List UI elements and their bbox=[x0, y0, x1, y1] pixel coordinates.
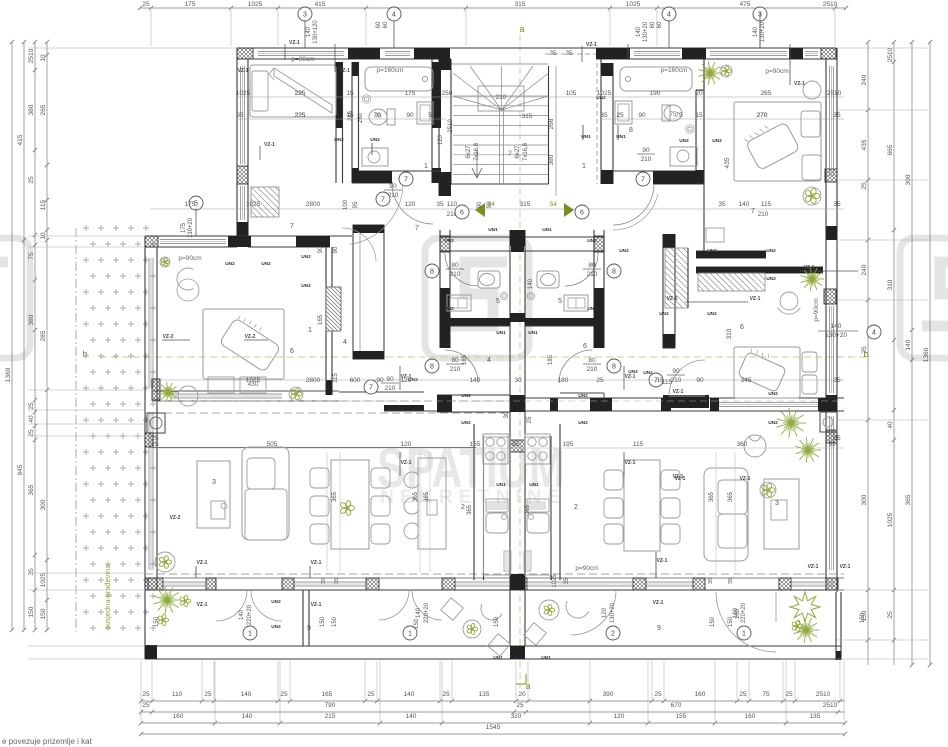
svg-text:1: 1 bbox=[248, 630, 252, 637]
svg-text:240: 240 bbox=[861, 74, 868, 85]
svg-text:7x16,8: 7x16,8 bbox=[523, 142, 529, 161]
svg-text:10: 10 bbox=[40, 54, 47, 62]
svg-text:VZ-2: VZ-2 bbox=[163, 334, 174, 340]
svg-text:6: 6 bbox=[290, 348, 294, 355]
furniture bbox=[250, 65, 336, 117]
svg-text:210: 210 bbox=[496, 94, 507, 101]
svg-text:90: 90 bbox=[406, 112, 414, 119]
svg-text:a: a bbox=[519, 24, 524, 34]
svg-text:1025: 1025 bbox=[246, 377, 261, 384]
svg-text:210: 210 bbox=[587, 271, 598, 278]
svg-text:1360: 1360 bbox=[923, 347, 930, 362]
svg-text:790: 790 bbox=[325, 702, 336, 709]
svg-text:NEKRETNINE: NEKRETNINE bbox=[380, 487, 566, 508]
svg-text:95: 95 bbox=[353, 201, 359, 208]
svg-text:260: 260 bbox=[358, 112, 364, 123]
svg-text:365: 365 bbox=[28, 484, 35, 495]
svg-text:435: 435 bbox=[724, 157, 731, 168]
svg-text:120: 120 bbox=[602, 607, 608, 618]
svg-text:175: 175 bbox=[185, 201, 196, 208]
svg-text:1360: 1360 bbox=[5, 367, 12, 382]
svg-text:315: 315 bbox=[520, 201, 531, 208]
svg-text:VZ-1: VZ-1 bbox=[808, 564, 819, 570]
svg-text:UN1: UN1 bbox=[496, 482, 506, 488]
svg-text:25: 25 bbox=[151, 441, 159, 448]
svg-text:240: 240 bbox=[861, 264, 868, 275]
svg-text:15: 15 bbox=[695, 112, 703, 119]
svg-text:UN2: UN2 bbox=[370, 137, 380, 143]
svg-text:1025: 1025 bbox=[887, 512, 894, 527]
svg-text:UN2: UN2 bbox=[707, 248, 717, 254]
svg-text:130+20: 130+20 bbox=[760, 21, 766, 42]
svg-text:25: 25 bbox=[151, 435, 159, 442]
svg-text:100: 100 bbox=[343, 199, 349, 210]
svg-text:3: 3 bbox=[303, 11, 307, 18]
svg-text:35: 35 bbox=[564, 577, 570, 584]
staircase bbox=[438, 59, 440, 196]
svg-text:VZ-2: VZ-2 bbox=[245, 334, 256, 340]
svg-text:140: 140 bbox=[831, 323, 842, 330]
svg-text:35: 35 bbox=[436, 201, 444, 208]
svg-text:90: 90 bbox=[386, 376, 394, 383]
svg-text:140: 140 bbox=[416, 607, 422, 618]
svg-text:25: 25 bbox=[142, 691, 150, 698]
svg-text:140: 140 bbox=[239, 609, 245, 620]
svg-text:365: 365 bbox=[413, 491, 419, 502]
svg-text:2510: 2510 bbox=[823, 702, 838, 709]
svg-text:175: 175 bbox=[185, 1, 196, 8]
svg-text:1: 1 bbox=[582, 163, 586, 170]
svg-text:150: 150 bbox=[40, 608, 47, 619]
svg-text:6: 6 bbox=[460, 209, 464, 216]
svg-text:UN2: UN2 bbox=[578, 420, 588, 426]
svg-text:505: 505 bbox=[267, 441, 278, 448]
svg-text:150: 150 bbox=[710, 616, 716, 627]
svg-text:120: 120 bbox=[401, 441, 412, 448]
svg-text:670: 670 bbox=[671, 702, 682, 709]
svg-text:195: 195 bbox=[563, 441, 574, 448]
svg-text:VZ-1: VZ-1 bbox=[667, 296, 678, 302]
svg-text:9: 9 bbox=[657, 625, 661, 632]
svg-text:210: 210 bbox=[641, 156, 652, 163]
svg-text:VZ-1: VZ-1 bbox=[197, 602, 208, 608]
svg-text:5: 5 bbox=[428, 112, 432, 119]
svg-text:15: 15 bbox=[346, 90, 354, 97]
svg-text:1025: 1025 bbox=[248, 1, 263, 8]
svg-text:175: 175 bbox=[405, 90, 416, 97]
unit2 interior bbox=[696, 89, 704, 91]
svg-text:25: 25 bbox=[204, 691, 212, 698]
svg-text:VZ-1: VZ-1 bbox=[238, 68, 249, 74]
svg-text:60: 60 bbox=[657, 21, 663, 28]
svg-text:VZ-1: VZ-1 bbox=[401, 460, 412, 466]
svg-text:160: 160 bbox=[735, 608, 741, 619]
svg-text:165: 165 bbox=[318, 314, 324, 325]
bathroom unit2 bbox=[600, 59, 602, 184]
svg-text:p=90cm: p=90cm bbox=[813, 298, 820, 321]
svg-text:20: 20 bbox=[695, 90, 703, 97]
svg-text:7: 7 bbox=[415, 225, 419, 232]
svg-text:185: 185 bbox=[548, 354, 554, 365]
svg-text:115: 115 bbox=[40, 199, 47, 210]
svg-text:6: 6 bbox=[583, 343, 587, 350]
svg-text:120: 120 bbox=[401, 377, 412, 384]
svg-text:130+20: 130+20 bbox=[825, 332, 847, 339]
svg-text:25: 25 bbox=[28, 429, 35, 437]
svg-text:UN2: UN2 bbox=[768, 420, 778, 426]
svg-text:40: 40 bbox=[887, 421, 894, 429]
svg-text:UN2: UN2 bbox=[444, 238, 454, 244]
svg-text:390: 390 bbox=[603, 691, 614, 698]
svg-text:VZ-1: VZ-1 bbox=[673, 474, 684, 480]
svg-text:160: 160 bbox=[745, 713, 756, 720]
svg-text:UN2: UN2 bbox=[444, 306, 454, 312]
svg-text:VZ-1: VZ-1 bbox=[311, 560, 322, 566]
svg-text:UN1: UN1 bbox=[542, 227, 552, 233]
svg-text:35: 35 bbox=[236, 112, 244, 119]
svg-text:80: 80 bbox=[588, 357, 596, 364]
svg-text:285: 285 bbox=[40, 330, 47, 341]
svg-text:8: 8 bbox=[612, 363, 616, 370]
svg-text:25: 25 bbox=[861, 182, 868, 190]
svg-text:90: 90 bbox=[696, 377, 704, 384]
svg-text:250: 250 bbox=[442, 90, 453, 97]
svg-text:35: 35 bbox=[833, 435, 841, 442]
svg-text:35: 35 bbox=[833, 112, 841, 119]
svg-text:310: 310 bbox=[887, 279, 894, 290]
svg-text:160: 160 bbox=[695, 691, 706, 698]
svg-text:UN1: UN1 bbox=[529, 482, 539, 488]
svg-text:320: 320 bbox=[511, 713, 522, 720]
svg-text:6: 6 bbox=[740, 324, 744, 331]
svg-text:2800: 2800 bbox=[306, 201, 321, 208]
svg-text:1545: 1545 bbox=[486, 724, 501, 731]
svg-text:150: 150 bbox=[154, 616, 160, 627]
svg-text:25: 25 bbox=[442, 691, 450, 698]
svg-text:268: 268 bbox=[548, 118, 555, 129]
svg-text:25: 25 bbox=[142, 1, 150, 8]
svg-text:90: 90 bbox=[389, 183, 397, 190]
svg-text:p=90cm: p=90cm bbox=[291, 56, 314, 63]
svg-text:25: 25 bbox=[596, 377, 604, 384]
svg-text:130+120: 130+120 bbox=[313, 20, 319, 44]
svg-text:365: 365 bbox=[424, 491, 430, 502]
svg-text:UN2: UN2 bbox=[768, 391, 778, 397]
svg-text:365: 365 bbox=[709, 491, 715, 502]
svg-text:VZ-1: VZ-1 bbox=[840, 564, 851, 570]
svg-text:380: 380 bbox=[548, 154, 555, 165]
svg-text:150: 150 bbox=[728, 616, 734, 627]
svg-text:140: 140 bbox=[306, 26, 312, 37]
svg-text:115: 115 bbox=[662, 379, 673, 386]
svg-text:360: 360 bbox=[737, 441, 748, 448]
svg-text:2: 2 bbox=[574, 504, 578, 511]
svg-text:1: 1 bbox=[742, 630, 746, 637]
svg-text:UN1: UN1 bbox=[493, 655, 503, 661]
svg-text:2: 2 bbox=[461, 504, 465, 511]
svg-text:UN1: UN1 bbox=[528, 330, 538, 336]
svg-text:VZ-1: VZ-1 bbox=[657, 558, 668, 564]
svg-text:90: 90 bbox=[672, 368, 680, 375]
svg-text:25: 25 bbox=[887, 611, 894, 619]
svg-text:945: 945 bbox=[17, 464, 24, 475]
svg-text:6x27: 6x27 bbox=[515, 145, 521, 159]
svg-text:3: 3 bbox=[775, 500, 779, 507]
svg-text:5: 5 bbox=[496, 298, 500, 305]
svg-text:365: 365 bbox=[525, 504, 531, 515]
svg-text:7: 7 bbox=[369, 384, 373, 391]
svg-text:115: 115 bbox=[761, 201, 772, 208]
svg-text:p=90cm: p=90cm bbox=[575, 565, 598, 572]
svg-text:220+20: 220+20 bbox=[247, 604, 253, 625]
section lines a-b bbox=[519, 34, 521, 688]
svg-text:35: 35 bbox=[321, 578, 327, 584]
svg-text:40: 40 bbox=[28, 415, 35, 423]
svg-text:35: 35 bbox=[600, 112, 608, 119]
svg-text:VZ-1: VZ-1 bbox=[673, 389, 684, 395]
svg-text:S4: S4 bbox=[549, 202, 557, 208]
svg-text:215: 215 bbox=[325, 713, 336, 720]
svg-text:25: 25 bbox=[516, 702, 524, 709]
svg-text:135: 135 bbox=[810, 713, 821, 720]
svg-text:UN2: UN2 bbox=[587, 306, 597, 312]
svg-text:VZ-1: VZ-1 bbox=[289, 40, 300, 46]
svg-text:UN1: UN1 bbox=[496, 330, 506, 336]
svg-text:90: 90 bbox=[376, 377, 384, 384]
svg-text:VZ-2: VZ-2 bbox=[170, 515, 181, 521]
svg-text:1025: 1025 bbox=[236, 90, 251, 97]
svg-text:365: 365 bbox=[467, 504, 473, 515]
svg-text:8: 8 bbox=[430, 268, 434, 275]
svg-text:220+20: 220+20 bbox=[424, 602, 430, 623]
svg-text:665: 665 bbox=[887, 144, 894, 155]
svg-text:UN2: UN2 bbox=[587, 238, 597, 244]
svg-text:UN2: UN2 bbox=[679, 138, 689, 144]
svg-text:4: 4 bbox=[392, 11, 396, 18]
svg-text:140: 140 bbox=[528, 278, 534, 289]
svg-text:8: 8 bbox=[612, 268, 616, 275]
svg-text:80: 80 bbox=[588, 262, 596, 269]
svg-text:210: 210 bbox=[671, 377, 682, 384]
svg-text:75: 75 bbox=[675, 112, 683, 119]
svg-text:25: 25 bbox=[785, 691, 793, 698]
svg-text:60: 60 bbox=[383, 21, 389, 28]
svg-text:270: 270 bbox=[757, 112, 768, 119]
svg-text:310: 310 bbox=[726, 328, 733, 339]
svg-text:115: 115 bbox=[333, 373, 339, 383]
svg-text:130+20: 130+20 bbox=[188, 217, 194, 238]
svg-text:175: 175 bbox=[181, 222, 187, 233]
svg-text:1: 1 bbox=[308, 327, 312, 334]
svg-text:6: 6 bbox=[580, 209, 584, 216]
svg-text:75: 75 bbox=[762, 691, 770, 698]
svg-text:80: 80 bbox=[451, 262, 459, 269]
svg-text:140: 140 bbox=[242, 713, 253, 720]
svg-text:110: 110 bbox=[172, 691, 183, 698]
svg-text:150: 150 bbox=[860, 612, 866, 623]
svg-text:135: 135 bbox=[479, 691, 490, 698]
svg-text:p=90cm: p=90cm bbox=[178, 255, 201, 262]
svg-text:150: 150 bbox=[494, 616, 500, 627]
svg-text:7: 7 bbox=[641, 176, 645, 183]
svg-text:e povezuje prizemlje i kat: e povezuje prizemlje i kat bbox=[2, 737, 93, 746]
svg-text:90: 90 bbox=[487, 201, 493, 208]
svg-text:345: 345 bbox=[741, 377, 752, 384]
svg-text:UN2: UN2 bbox=[766, 248, 776, 254]
svg-text:p=160cm: p=160cm bbox=[377, 67, 404, 74]
svg-text:7: 7 bbox=[381, 196, 385, 203]
svg-text:UN1: UN1 bbox=[488, 227, 498, 233]
svg-text:25: 25 bbox=[739, 691, 747, 698]
svg-text:UN2: UN2 bbox=[578, 393, 588, 399]
svg-text:UN2: UN2 bbox=[261, 261, 271, 267]
svg-text:VZ-1: VZ-1 bbox=[653, 600, 664, 606]
svg-text:365: 365 bbox=[905, 494, 912, 505]
svg-text:UN2: UN2 bbox=[619, 248, 629, 254]
svg-text:30: 30 bbox=[504, 411, 510, 418]
svg-text:VZ-1: VZ-1 bbox=[586, 42, 597, 48]
svg-text:25: 25 bbox=[527, 416, 533, 423]
svg-text:90: 90 bbox=[642, 147, 650, 154]
svg-text:UN2: UN2 bbox=[271, 624, 281, 630]
dimension chains bbox=[140, 7, 846, 9]
svg-text:90: 90 bbox=[477, 201, 483, 208]
svg-text:1025: 1025 bbox=[597, 90, 612, 97]
svg-text:140: 140 bbox=[905, 339, 912, 350]
svg-text:70: 70 bbox=[373, 112, 381, 119]
svg-text:35: 35 bbox=[28, 568, 35, 576]
svg-text:35: 35 bbox=[718, 201, 726, 208]
svg-text:VZ-1: VZ-1 bbox=[750, 296, 761, 302]
svg-text:265: 265 bbox=[761, 90, 772, 97]
svg-text:380: 380 bbox=[28, 104, 35, 115]
svg-text:245: 245 bbox=[348, 110, 354, 121]
svg-text:140: 140 bbox=[470, 377, 481, 384]
svg-text:185: 185 bbox=[462, 354, 468, 365]
svg-text:60: 60 bbox=[376, 21, 382, 28]
svg-text:UN2: UN2 bbox=[766, 276, 776, 282]
svg-text:115: 115 bbox=[633, 441, 644, 448]
svg-text:VZ-1: VZ-1 bbox=[625, 460, 636, 466]
svg-text:UN2: UN2 bbox=[712, 138, 722, 144]
svg-text:b: b bbox=[82, 349, 87, 359]
svg-text:105: 105 bbox=[566, 90, 577, 97]
svg-text:2800: 2800 bbox=[306, 377, 321, 384]
svg-text:9: 9 bbox=[307, 625, 311, 632]
svg-text:130+20: 130+20 bbox=[643, 21, 649, 42]
svg-text:415: 415 bbox=[17, 134, 24, 145]
svg-text:UN2: UN2 bbox=[301, 254, 311, 260]
svg-text:VZ-1: VZ-1 bbox=[740, 476, 751, 482]
svg-text:210: 210 bbox=[450, 366, 461, 373]
svg-text:600: 600 bbox=[350, 377, 361, 384]
svg-text:90: 90 bbox=[333, 246, 339, 253]
svg-text:VZ-1: VZ-1 bbox=[197, 560, 208, 566]
svg-text:435: 435 bbox=[861, 139, 868, 150]
svg-text:210: 210 bbox=[385, 385, 396, 392]
svg-text:35: 35 bbox=[550, 51, 557, 57]
svg-text:p=90cm: p=90cm bbox=[765, 68, 788, 75]
svg-text:4: 4 bbox=[872, 329, 876, 336]
svg-text:140: 140 bbox=[241, 691, 252, 698]
svg-text:UN1: UN1 bbox=[541, 655, 551, 661]
svg-text:35: 35 bbox=[708, 578, 714, 584]
svg-text:1025: 1025 bbox=[40, 572, 47, 587]
svg-text:2510: 2510 bbox=[823, 1, 838, 8]
svg-text:1025: 1025 bbox=[626, 1, 641, 8]
svg-text:6x27: 6x27 bbox=[466, 145, 472, 159]
svg-text:35: 35 bbox=[833, 201, 841, 208]
svg-text:380: 380 bbox=[28, 314, 35, 325]
stippled neighbour area bbox=[83, 225, 89, 231]
svg-text:300: 300 bbox=[40, 499, 47, 510]
svg-text:20: 20 bbox=[518, 691, 526, 698]
svg-text:140: 140 bbox=[636, 26, 642, 37]
svg-text:165: 165 bbox=[322, 691, 333, 698]
svg-text:30: 30 bbox=[514, 377, 522, 384]
svg-text:315: 315 bbox=[515, 1, 526, 8]
svg-text:365: 365 bbox=[728, 491, 734, 502]
svg-text:3: 3 bbox=[212, 479, 216, 486]
svg-text:7: 7 bbox=[404, 176, 408, 183]
svg-text:210: 210 bbox=[758, 211, 769, 218]
svg-text:8: 8 bbox=[629, 127, 633, 134]
svg-text:25: 25 bbox=[28, 402, 35, 410]
svg-text:120: 120 bbox=[405, 201, 416, 208]
svg-text:2: 2 bbox=[611, 630, 615, 637]
svg-text:25: 25 bbox=[367, 691, 375, 698]
svg-text:190: 190 bbox=[650, 90, 661, 97]
svg-text:225: 225 bbox=[295, 112, 306, 119]
svg-text:365: 365 bbox=[332, 491, 338, 502]
svg-text:25: 25 bbox=[28, 176, 35, 184]
svg-text:2: 2 bbox=[508, 150, 512, 157]
svg-text:25: 25 bbox=[142, 702, 150, 709]
svg-text:5: 5 bbox=[558, 298, 562, 305]
svg-text:150: 150 bbox=[320, 616, 326, 627]
svg-text:4: 4 bbox=[667, 11, 671, 18]
svg-text:220+20: 220+20 bbox=[741, 602, 747, 623]
central core bbox=[439, 230, 441, 348]
svg-text:2510: 2510 bbox=[816, 691, 831, 698]
svg-text:35: 35 bbox=[828, 441, 836, 448]
svg-text:160: 160 bbox=[173, 713, 184, 720]
svg-text:25: 25 bbox=[280, 691, 288, 698]
svg-text:UN2: UN2 bbox=[225, 261, 235, 267]
svg-text:300: 300 bbox=[861, 494, 868, 505]
svg-text:UN2: UN2 bbox=[461, 420, 471, 426]
svg-text:415: 415 bbox=[315, 1, 326, 8]
svg-text:25: 25 bbox=[654, 691, 662, 698]
svg-text:75: 75 bbox=[28, 252, 35, 260]
svg-text:150: 150 bbox=[332, 616, 338, 627]
svg-text:UN2: UN2 bbox=[659, 311, 669, 317]
unit1 interior bbox=[325, 247, 327, 395]
svg-text:110: 110 bbox=[447, 201, 458, 208]
building walls bbox=[237, 47, 836, 49]
svg-text:210: 210 bbox=[587, 366, 598, 373]
svg-text:1025: 1025 bbox=[246, 201, 261, 208]
svg-text:130+20: 130+20 bbox=[610, 602, 616, 623]
svg-text:2510: 2510 bbox=[448, 119, 454, 133]
svg-text:35: 35 bbox=[833, 377, 841, 384]
svg-text:90: 90 bbox=[638, 112, 646, 119]
svg-text:180: 180 bbox=[558, 377, 569, 384]
svg-text:7: 7 bbox=[290, 223, 294, 230]
svg-text:VZ-1: VZ-1 bbox=[339, 68, 350, 74]
svg-text:UN2: UN2 bbox=[628, 369, 638, 375]
svg-text:140: 140 bbox=[753, 26, 759, 37]
